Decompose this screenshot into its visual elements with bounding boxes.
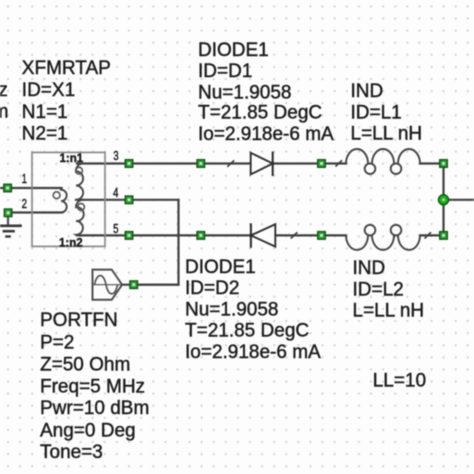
svg-text:Freq=5 MHz: Freq=5 MHz: [40, 376, 145, 397]
inductor L2 coil: [346, 225, 420, 250]
transformer primary dot: [53, 192, 60, 199]
node L2 pin: [318, 232, 326, 240]
svg-text:ID=D1: ID=D1: [198, 61, 252, 82]
svg-text:ID=D2: ID=D2: [185, 278, 239, 299]
diode D2 pin1 slash: [291, 232, 298, 238]
svg-text:N1=1: N1=1: [22, 102, 68, 123]
node D2 cathode: [197, 232, 205, 240]
wire pin 2 to primary: [8, 211, 62, 213]
diode D1 pin1 slash: [227, 160, 234, 167]
wire port2 apex stub: [122, 284, 178, 286]
svg-text:5: 5: [113, 222, 118, 236]
svg-text:T=21.85 DegC: T=21.85 DegC: [185, 321, 309, 342]
svg-text:ID=X1: ID=X1: [22, 80, 75, 101]
diode D2 cathode bar: [250, 223, 252, 248]
wire L1 to right rail: [420, 162, 444, 164]
inductor L2 pin1 slash: [425, 232, 432, 238]
node pin2 X1: [4, 209, 12, 217]
ground: [0, 217, 22, 237]
node right rail bottom: [440, 232, 448, 240]
svg-text:ID=L1: ID=L1: [351, 103, 402, 124]
node right rail top: [440, 160, 448, 168]
transformer X1 box: [32, 152, 105, 246]
wire pin 3 top rail: [77, 162, 201, 164]
transformer X1 secondary winding n2: [76, 200, 84, 236]
svg-text:ID=L2: ID=L2: [353, 280, 404, 301]
transformer X1 primary winding: [61, 188, 67, 213]
svg-text:IND: IND: [351, 81, 384, 102]
svg-text:3: 3: [113, 149, 118, 163]
wire port1 stub to pin 1: [0, 187, 62, 189]
diode D1 triangle: [251, 153, 273, 175]
svg-text:DIODE1: DIODE1: [185, 257, 256, 278]
svg-text:L=LL nH: L=LL nH: [353, 301, 425, 322]
port P2 symbol: [93, 270, 123, 300]
svg-text:P=2: P=2: [40, 332, 74, 353]
svg-text:Ang=0 Deg: Ang=0 Deg: [40, 421, 136, 442]
node pin4 X1: [125, 196, 133, 204]
wire pin 4 tap: [76, 199, 179, 201]
svg-text:4: 4: [113, 186, 118, 200]
svg-text:1:n1: 1:n1: [60, 153, 84, 165]
wire D2 cathode side: [201, 234, 251, 236]
pin number labels: [22, 149, 119, 236]
svg-text:Io=2.918e-6 mA: Io=2.918e-6 mA: [198, 124, 334, 145]
wire D2 anode to L2: [275, 234, 346, 236]
diode D2 triangle: [251, 224, 275, 246]
label IND L2 block: [353, 258, 425, 322]
svg-text:Nu=1.9058: Nu=1.9058: [185, 300, 279, 321]
wire D1 anode: [201, 162, 251, 164]
svg-text:IND: IND: [353, 258, 386, 279]
junction node: [439, 195, 449, 205]
svg-text:LL=10: LL=10: [373, 371, 426, 392]
svg-text:T=21.85 DegC: T=21.85 DegC: [198, 103, 322, 124]
svg-text:Nu=1.9058: Nu=1.9058: [198, 83, 292, 104]
node L1 pin: [318, 160, 326, 168]
inductor L1 coil: [346, 149, 420, 174]
svg-text:Z=50 Ohm: Z=50 Ohm: [40, 354, 130, 375]
transformer secondary dot 1: [76, 167, 83, 174]
svg-text:PORTFN: PORTFN: [40, 310, 118, 331]
svg-text:DIODE1: DIODE1: [198, 40, 269, 61]
svg-text:L=LL nH: L=LL nH: [351, 124, 423, 145]
node pin1 X1: [4, 184, 12, 192]
svg-text:XFMRTAP: XFMRTAP: [22, 58, 111, 79]
diode D1 cathode bar: [272, 152, 274, 177]
svg-text:Tone=3: Tone=3: [40, 442, 103, 463]
svg-text:Pwr=10 dBm: Pwr=10 dBm: [40, 398, 149, 419]
wire L2 to right rail: [420, 234, 444, 236]
wire D1 cathode to L1: [273, 162, 346, 164]
transformer secondary dot 2: [78, 204, 85, 211]
wire junction to right edge: [444, 199, 474, 201]
svg-text:1:n2: 1:n2: [59, 238, 83, 250]
node pin5 X1: [125, 232, 133, 240]
svg-text:2: 2: [22, 197, 27, 211]
node pin3 X1: [125, 160, 133, 168]
wire tap down to port 2: [134, 200, 179, 285]
label DIODE1 D2 block: [185, 257, 321, 363]
svg-text:MHz: MHz: [0, 80, 8, 101]
node port2 pin: [130, 281, 138, 289]
transformer X1 secondary winding n1: [76, 163, 84, 199]
label PORTFN block: [40, 310, 149, 463]
label IND L1 block: [351, 81, 423, 145]
wire right vertical rail: [442, 164, 444, 236]
node D1 anode: [197, 160, 205, 168]
svg-text:Io=2.918e-6 mA: Io=2.918e-6 mA: [185, 342, 321, 363]
svg-text:N2=1: N2=1: [22, 124, 68, 145]
svg-text:1: 1: [22, 172, 27, 186]
label XFMRTAP block: [22, 58, 111, 145]
inductor L1 pin1 slash: [336, 160, 343, 166]
label DIODE1 D1 block: [198, 40, 334, 145]
svg-text:dBm: dBm: [0, 102, 8, 123]
wire pin 5 bottom rail: [77, 234, 201, 236]
